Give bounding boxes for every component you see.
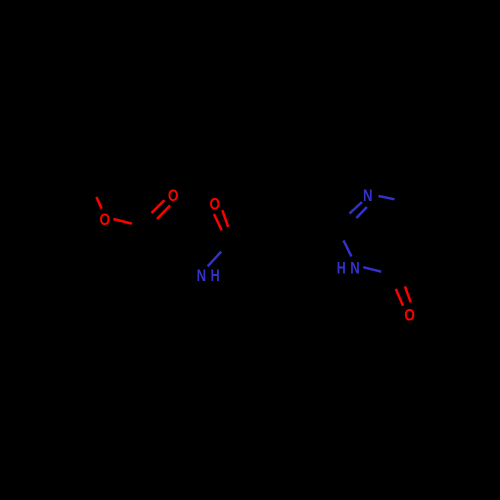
svg-text:O: O	[404, 306, 415, 325]
svg-text:N: N	[197, 266, 207, 285]
svg-text:H: H	[337, 259, 346, 278]
svg-text:O: O	[210, 195, 221, 214]
svg-text:N: N	[363, 186, 373, 205]
svg-text:O: O	[100, 210, 111, 229]
svg-text:N: N	[350, 259, 360, 278]
svg-text:H: H	[211, 266, 220, 285]
svg-text:O: O	[168, 186, 179, 205]
